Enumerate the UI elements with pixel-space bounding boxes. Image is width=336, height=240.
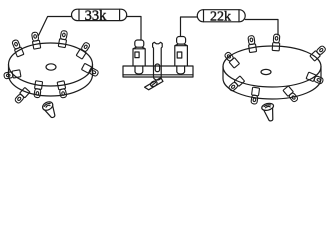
svg-text:22k: 22k [210, 10, 231, 25]
svg-text:33k: 33k [85, 8, 108, 24]
